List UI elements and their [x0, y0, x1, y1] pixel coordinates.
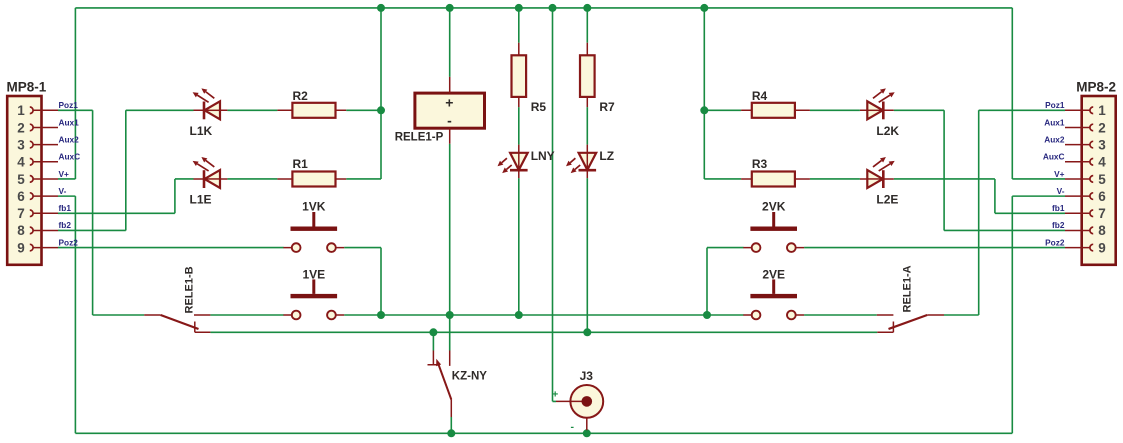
svg-text:2VE: 2VE — [762, 268, 785, 282]
svg-text:Poz1: Poz1 — [1045, 100, 1065, 110]
svg-text:L1E: L1E — [190, 193, 212, 207]
svg-text:2: 2 — [1098, 120, 1106, 135]
svg-text:AuxC: AuxC — [59, 152, 81, 162]
svg-text:7: 7 — [1098, 206, 1106, 221]
svg-text:L2K: L2K — [876, 124, 899, 138]
svg-text:V-: V- — [1057, 186, 1065, 196]
svg-text:3: 3 — [17, 137, 25, 152]
svg-text:3: 3 — [1098, 137, 1106, 152]
svg-text:RELE1-A: RELE1-A — [902, 265, 914, 312]
svg-text:2VK: 2VK — [762, 200, 786, 214]
svg-text:Poz2: Poz2 — [59, 237, 79, 247]
svg-text:V-: V- — [59, 186, 67, 196]
svg-text:R7: R7 — [599, 100, 615, 114]
svg-text:R5: R5 — [531, 100, 547, 114]
svg-text:Poz2: Poz2 — [1045, 237, 1065, 247]
svg-text:L1K: L1K — [190, 124, 213, 138]
svg-text:R3: R3 — [752, 157, 768, 171]
svg-text:J3: J3 — [580, 369, 594, 383]
svg-text:LZ: LZ — [599, 149, 614, 163]
svg-text:RELE1-P: RELE1-P — [395, 131, 444, 143]
svg-text:4: 4 — [1098, 155, 1106, 170]
svg-text:1VE: 1VE — [302, 268, 325, 282]
svg-text:fb2: fb2 — [59, 220, 72, 230]
svg-text:9: 9 — [17, 240, 25, 255]
svg-text:1VK: 1VK — [302, 200, 326, 214]
svg-text:2: 2 — [17, 120, 25, 135]
svg-text:6: 6 — [17, 189, 25, 204]
svg-text:Aux2: Aux2 — [59, 134, 80, 144]
svg-text:MP8-2: MP8-2 — [1076, 80, 1116, 95]
svg-text:fb2: fb2 — [1052, 220, 1065, 230]
svg-text:fb1: fb1 — [1052, 203, 1065, 213]
svg-text:1: 1 — [17, 103, 25, 118]
svg-text:Aux1: Aux1 — [1044, 117, 1065, 127]
svg-text:Poz1: Poz1 — [59, 100, 79, 110]
svg-text:V+: V+ — [1054, 169, 1065, 179]
svg-text:V+: V+ — [59, 169, 70, 179]
svg-text:5: 5 — [17, 172, 25, 187]
svg-text:-: - — [447, 113, 452, 129]
svg-text:MP8-1: MP8-1 — [7, 80, 47, 95]
svg-text:8: 8 — [17, 223, 25, 238]
svg-text:R2: R2 — [293, 89, 309, 103]
svg-text:RELE1-B: RELE1-B — [184, 266, 196, 313]
svg-text:+: + — [445, 95, 453, 111]
svg-text:AuxC: AuxC — [1043, 152, 1065, 162]
svg-text:6: 6 — [1098, 189, 1106, 204]
svg-text:9: 9 — [1098, 240, 1106, 255]
svg-text:L2E: L2E — [876, 193, 898, 207]
svg-text:Aux1: Aux1 — [59, 117, 80, 127]
svg-text:KZ-NY: KZ-NY — [452, 371, 487, 383]
svg-text:4: 4 — [17, 155, 25, 170]
svg-text:8: 8 — [1098, 223, 1106, 238]
svg-text:5: 5 — [1098, 172, 1106, 187]
svg-text:+: + — [552, 388, 558, 400]
svg-text:7: 7 — [17, 206, 25, 221]
svg-text:R1: R1 — [293, 157, 309, 171]
svg-text:-: - — [570, 421, 574, 433]
svg-text:Aux2: Aux2 — [1044, 134, 1065, 144]
svg-text:fb1: fb1 — [59, 203, 72, 213]
svg-text:1: 1 — [1098, 103, 1106, 118]
svg-text:R4: R4 — [752, 89, 768, 103]
svg-text:LNY: LNY — [531, 149, 555, 163]
